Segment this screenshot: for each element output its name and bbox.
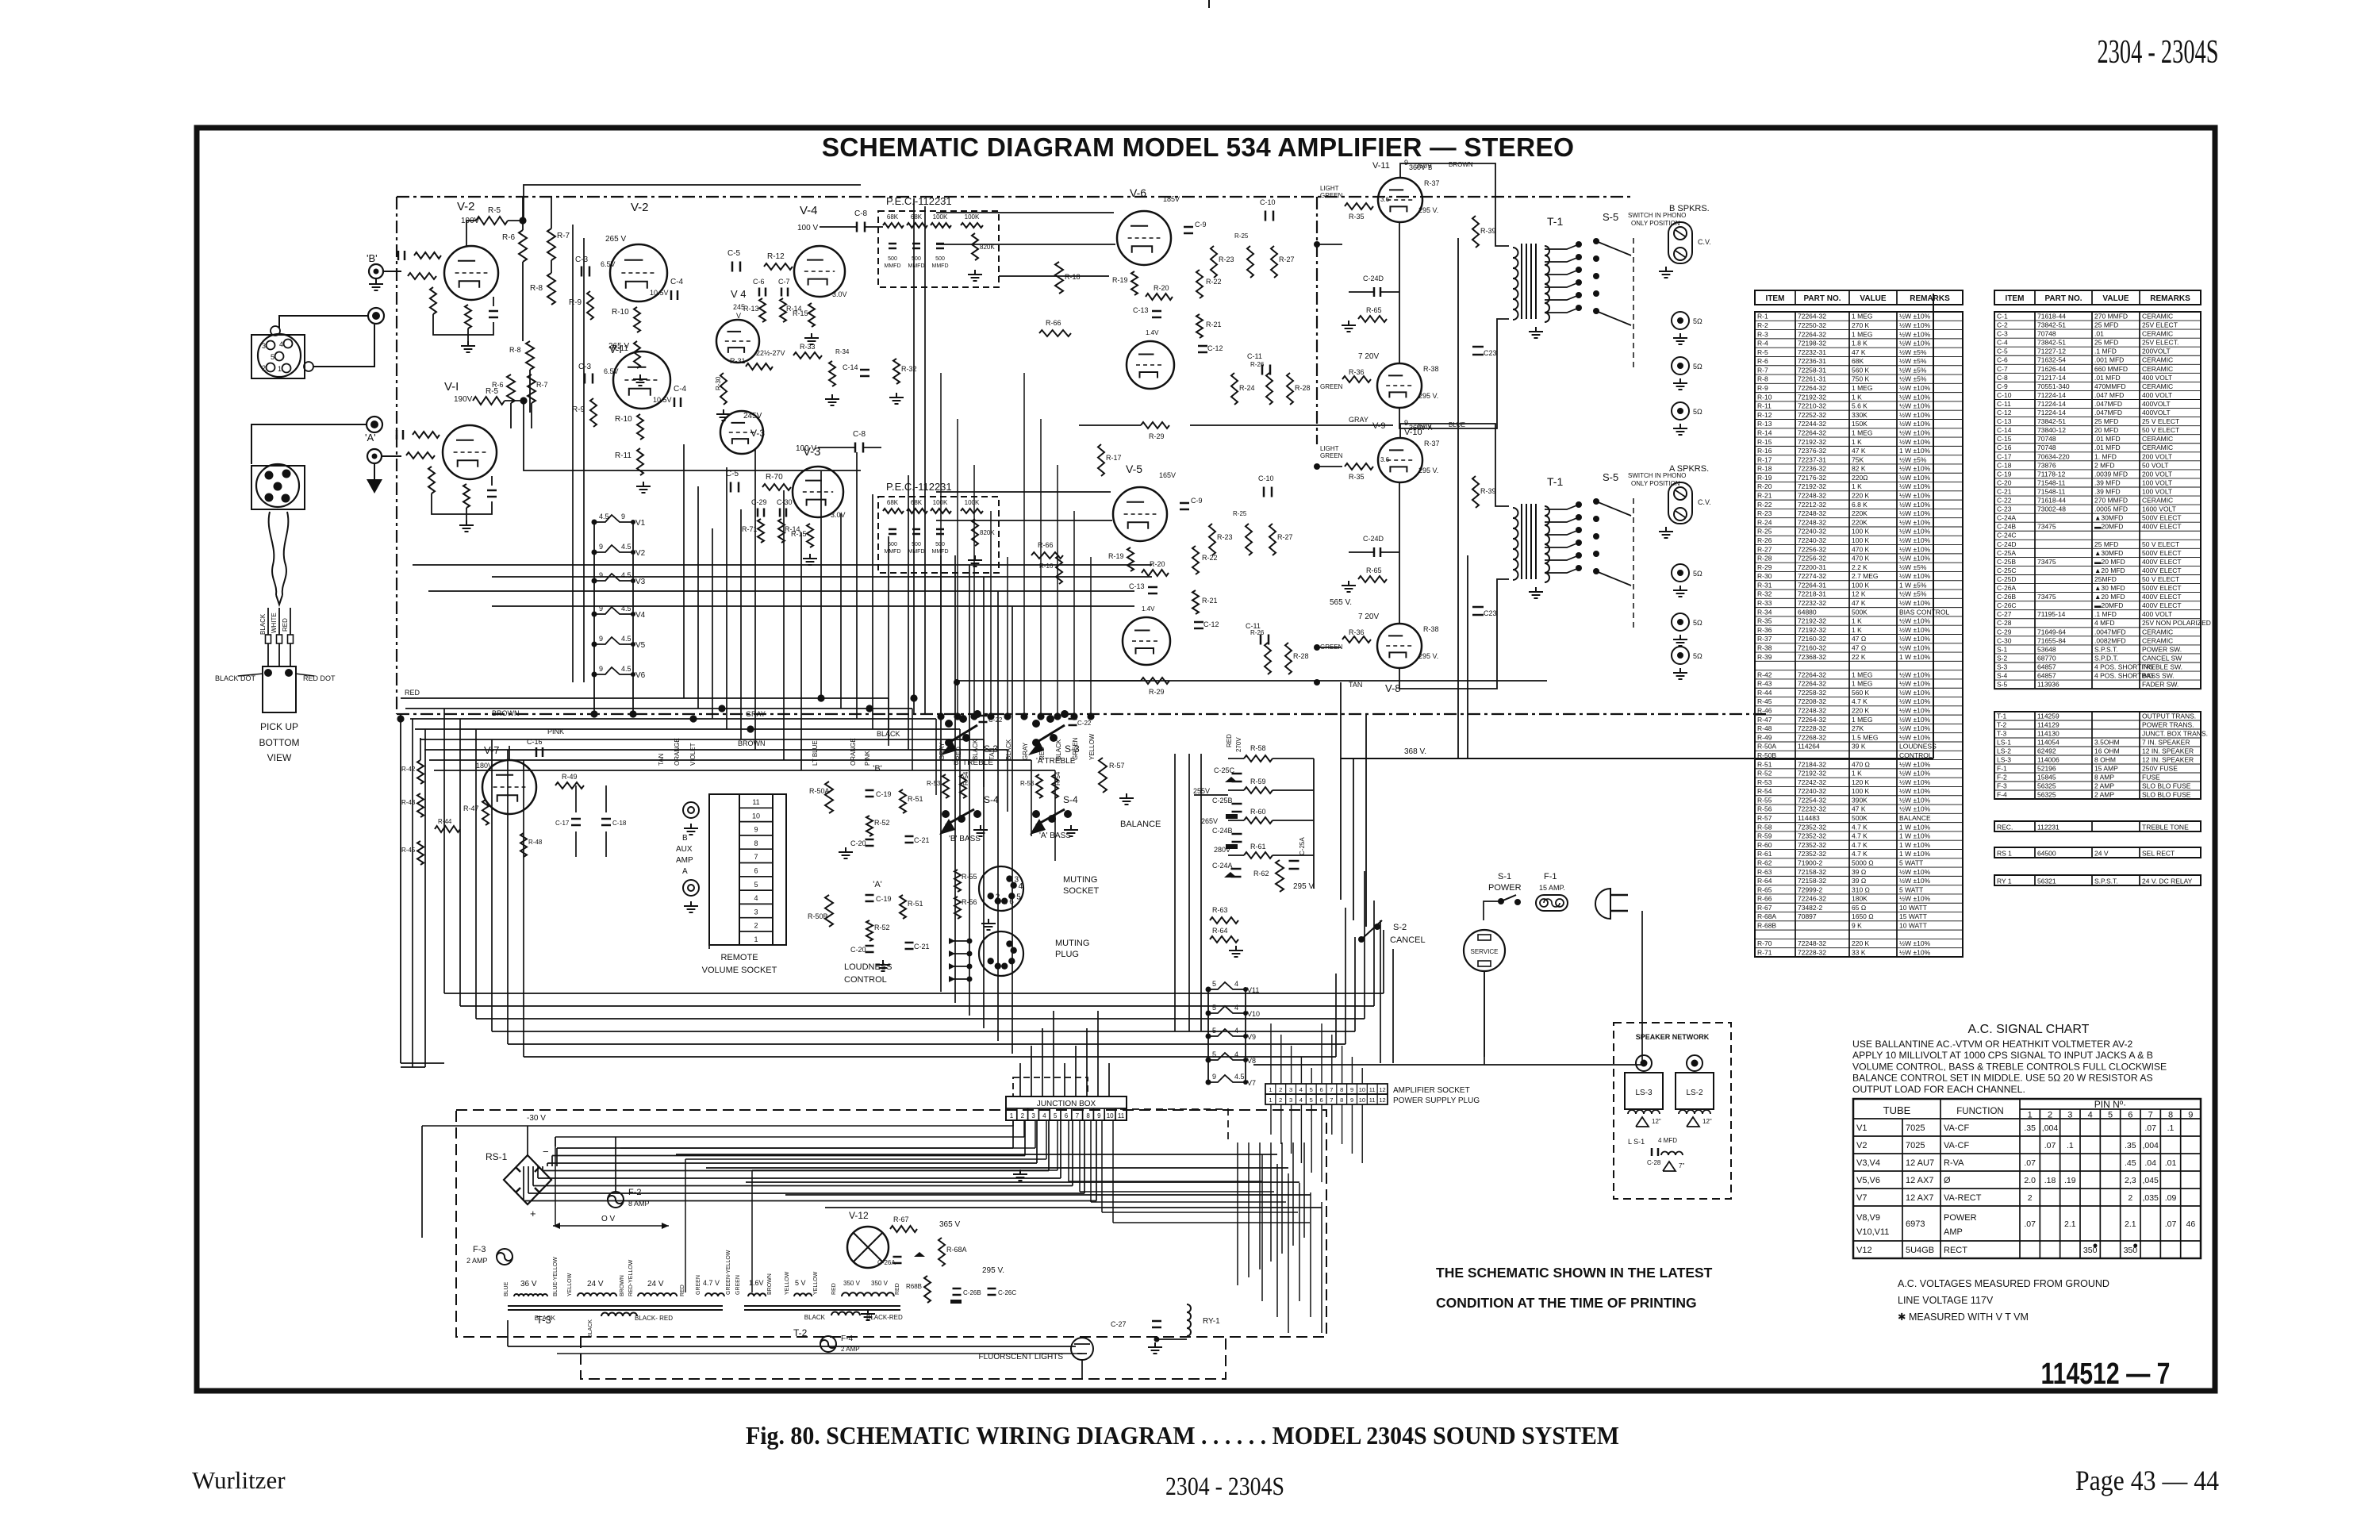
svg-text:V5,V6: V5,V6 [1856, 1176, 1880, 1185]
svg-text:V8,V9: V8,V9 [1856, 1213, 1880, 1223]
grid resistor R-1 V-2 [408, 273, 436, 279]
svg-text:'B': 'B' [367, 252, 378, 264]
svg-text:565 V.: 565 V. [1330, 598, 1352, 607]
svg-text:RED: RED [405, 689, 420, 697]
svg-text:CANCEL SW: CANCEL SW [2142, 654, 2182, 662]
wire plate to T-1 primary [1400, 424, 1509, 506]
svg-text:72232-32: 72232-32 [1798, 805, 1826, 813]
svg-text:165V: 165V [1159, 471, 1176, 479]
junction dots bus [519, 217, 526, 224]
tube V-2 [444, 246, 498, 300]
svg-text:4.7 K: 4.7 K [1852, 697, 1868, 705]
svg-text:T-2: T-2 [1997, 720, 2007, 728]
svg-text:72264-32: 72264-32 [1798, 330, 1826, 338]
screen resistor R-36 [1342, 636, 1371, 643]
svg-text:72240-32: 72240-32 [1798, 536, 1826, 544]
svg-text:56325: 56325 [2037, 790, 2056, 798]
arrow ground at jack A [374, 464, 375, 479]
svg-text:270 MMFD: 270 MMFD [2094, 312, 2128, 320]
svg-text:72200-31: 72200-31 [1798, 563, 1826, 571]
svg-text:C-18: C-18 [1997, 461, 2012, 469]
svg-text:8: 8 [1086, 1112, 1090, 1119]
svg-text:C-12: C-12 [1207, 344, 1223, 352]
svg-text:.01 MFD: .01 MFD [2094, 374, 2121, 382]
svg-text:BLACK: BLACK [535, 1315, 556, 1322]
svg-text:72376-32: 72376-32 [1798, 447, 1826, 455]
svg-text:4.5: 4.5 [1234, 1073, 1245, 1081]
wire 100V feed B [524, 185, 861, 221]
svg-text:47 K: 47 K [1852, 348, 1866, 356]
svg-text:73482-2: 73482-2 [1798, 904, 1822, 912]
svg-text:F-1: F-1 [1997, 764, 2007, 772]
svg-text:AMPLIFIER SOCKET: AMPLIFIER SOCKET [1393, 1086, 1470, 1095]
svg-text:V-11: V-11 [1372, 161, 1390, 171]
lead terminals [266, 635, 271, 643]
svg-text:V-3: V-3 [803, 445, 821, 459]
wire 368V run [1341, 758, 1933, 759]
svg-text:▬20 MFD: ▬20 MFD [2094, 558, 2125, 566]
svg-text:4: 4 [1234, 1027, 1238, 1035]
svg-text:APPLY 10 MILLIVOLT AT 1000 CPS: APPLY 10 MILLIVOLT AT 1000 CPS SIGNAL TO… [1852, 1050, 2153, 1061]
svg-text:72264-32: 72264-32 [1798, 428, 1826, 436]
svg-text:12: 12 [1379, 1086, 1385, 1093]
aux amp jacks [683, 802, 699, 818]
resistor R-3 V-2 [430, 287, 436, 314]
svg-text:SLO BLO FUSE: SLO BLO FUSE [2142, 782, 2191, 789]
svg-text:▲30 MFD: ▲30 MFD [2094, 584, 2125, 592]
svg-text:R-21: R-21 [1202, 597, 1218, 605]
svg-text:LS-2: LS-2 [1997, 747, 2011, 755]
svg-text:1 W ±10%: 1 W ±10% [1899, 841, 1931, 849]
svg-text:R-15: R-15 [793, 309, 808, 317]
parts table RY-1 relay [1994, 875, 2201, 885]
cap C-13 V-6 [1152, 310, 1161, 313]
ground R-65 [1348, 581, 1349, 586]
svg-text:▲20 MFD: ▲20 MFD [2094, 593, 2125, 601]
cap C-23 [1472, 346, 1484, 348]
wires to junction box diagonal bundle [1019, 1063, 1021, 1096]
tube V-6 [1117, 211, 1171, 265]
svg-text:5: 5 [1016, 893, 1021, 901]
svg-text:C-23: C-23 [1997, 505, 2012, 513]
remote volume socket outer box [709, 794, 786, 945]
svg-text:500V ELECT: 500V ELECT [2142, 549, 2182, 557]
svg-text:PART NO.: PART NO. [2044, 294, 2082, 303]
svg-text:5: 5 [271, 353, 274, 361]
tube V-2b [610, 244, 667, 301]
cap C-24A [1231, 868, 1242, 870]
svg-text:'A': 'A' [365, 432, 376, 444]
cap C-5 V-3 [730, 482, 732, 493]
svg-text:39 Ω: 39 Ω [1852, 868, 1866, 876]
svg-text:R-21: R-21 [1206, 321, 1222, 328]
svg-text:R-31: R-31 [1757, 581, 1772, 589]
svg-text:68K: 68K [887, 213, 899, 221]
coupling cap C-3 V-2b [581, 267, 583, 277]
svg-text:4.5: 4.5 [621, 571, 631, 579]
svg-text:R-38: R-38 [1423, 365, 1439, 373]
svg-text:V-6: V-6 [1130, 186, 1146, 199]
svg-text:185V: 185V [1163, 195, 1180, 203]
svg-text:VALUE: VALUE [1860, 294, 1886, 303]
cap C-10 lower [1263, 487, 1265, 497]
resistor R-62 vertical [1276, 860, 1284, 892]
svg-text:1 K: 1 K [1852, 617, 1862, 625]
svg-text:9: 9 [599, 635, 603, 643]
fuse F-4 [820, 1336, 836, 1352]
svg-text:7: 7 [1330, 1086, 1333, 1093]
tube V-1 [443, 425, 497, 479]
resistor R-65 [1358, 316, 1387, 322]
svg-text:C-16: C-16 [527, 738, 543, 746]
svg-text:LT BLUE: LT BLUE [812, 740, 819, 766]
svg-text:RS 1: RS 1 [1997, 849, 2012, 857]
svg-text:C-12: C-12 [1997, 409, 2012, 417]
svg-text:S-1: S-1 [1498, 872, 1511, 881]
svg-text:4.5: 4.5 [621, 635, 631, 643]
svg-text:5: 5 [754, 881, 758, 889]
wire outer loop bottom [401, 1066, 425, 1068]
resistor R-31 [746, 363, 773, 370]
svg-text:295 V.: 295 V. [1418, 467, 1438, 474]
svg-text:F-2: F-2 [1997, 773, 2007, 781]
svg-text:BROWN: BROWN [738, 739, 766, 747]
svg-text:9: 9 [1350, 1086, 1353, 1093]
svg-text:POWER SW.: POWER SW. [2142, 645, 2182, 653]
svg-text:2 MFD: 2 MFD [2094, 461, 2115, 469]
svg-text:72261-31: 72261-31 [1798, 375, 1826, 383]
svg-text:R-6: R-6 [502, 233, 516, 242]
svg-text:S-3: S-3 [1997, 662, 2008, 670]
svg-text:400V ELECT: 400V ELECT [2142, 523, 2182, 531]
svg-text:.047 MFD: .047 MFD [2094, 391, 2124, 399]
svg-text:71900-2: 71900-2 [1798, 858, 1822, 866]
svg-text:72264-31: 72264-31 [1798, 581, 1826, 589]
svg-text:72218-31: 72218-31 [1798, 590, 1826, 598]
muting plug arrows [949, 940, 969, 942]
svg-text:72258-32: 72258-32 [1798, 689, 1826, 697]
svg-text:½W ±10%: ½W ±10% [1899, 518, 1931, 526]
resistor R-17 lower [1209, 745, 1211, 747]
svg-text:1600 VOLT: 1600 VOLT [2142, 505, 2176, 513]
svg-text:120 K: 120 K [1852, 778, 1870, 786]
svg-text:C-5: C-5 [1997, 348, 2008, 355]
svg-text:71227-12: 71227-12 [2037, 348, 2066, 355]
svg-text:9: 9 [1404, 159, 1408, 167]
speaker LS-2 [1687, 1055, 1702, 1071]
svg-text:46: 46 [2186, 1219, 2195, 1229]
svg-text:72250-32: 72250-32 [1798, 321, 1826, 329]
svg-text:R-26: R-26 [1757, 536, 1772, 544]
resistor R-15 V-3 [807, 524, 813, 547]
svg-text:R-36: R-36 [1349, 628, 1365, 636]
svg-text:.07: .07 [2044, 1141, 2056, 1150]
svg-text:,004: ,004 [2042, 1123, 2059, 1133]
svg-text:6.5V: 6.5V [601, 260, 616, 268]
balance pot R-57 [1099, 758, 1107, 793]
svg-text:R-45: R-45 [1757, 697, 1772, 705]
svg-text:V3,V4: V3,V4 [1856, 1158, 1880, 1168]
second triode V-5 [1123, 617, 1170, 665]
cap C-9 V-5 [1180, 502, 1189, 505]
svg-text:470MMFD: 470MMFD [2094, 382, 2126, 390]
svg-text:500V ELECT: 500V ELECT [2142, 584, 2182, 592]
ground V-4 [811, 333, 812, 338]
dashed wire junction pin 11 [1120, 1109, 1228, 1141]
svg-text:72208-32: 72208-32 [1798, 697, 1826, 705]
svg-text:180V: 180V [476, 762, 493, 770]
muting socket [979, 866, 1023, 911]
svg-text:R-47: R-47 [1757, 716, 1772, 724]
svg-text:5U4GB: 5U4GB [1906, 1246, 1934, 1255]
svg-text:½W ±10%: ½W ±10% [1899, 895, 1931, 903]
svg-text:C-8: C-8 [1997, 374, 2008, 382]
svg-text:C-11: C-11 [1997, 400, 2011, 408]
svg-text:R-54: R-54 [1054, 771, 1061, 785]
svg-text:R-44: R-44 [1757, 689, 1772, 697]
svg-text:VIOLET: VIOLET [689, 743, 697, 766]
svg-text:36 V: 36 V [520, 1280, 537, 1288]
svg-text:ONLY POSITION: ONLY POSITION [1631, 220, 1680, 227]
svg-text:7 IN. SPEAKER: 7 IN. SPEAKER [2142, 738, 2190, 746]
svg-text:1: 1 [1010, 1112, 1014, 1119]
svg-text:MUTING: MUTING [1063, 875, 1097, 885]
svg-text:C-5: C-5 [727, 249, 741, 258]
svg-text:8: 8 [1340, 1086, 1343, 1093]
svg-text:½W ±10%: ½W ±10% [1899, 545, 1931, 553]
T-2 core lines [744, 1305, 900, 1307]
wire verticals into power supply [1237, 1143, 1238, 1285]
svg-text:C-4: C-4 [670, 278, 684, 286]
svg-text:½W ±10%: ½W ±10% [1899, 402, 1931, 410]
svg-text:R-62: R-62 [1253, 870, 1269, 878]
svg-text:.047MFD: .047MFD [2094, 400, 2122, 408]
svg-text:A: A [682, 867, 688, 876]
speaker network dashed box [1614, 1023, 1731, 1199]
wire long runs bottom left [401, 1062, 444, 1064]
svg-text:C-25A: C-25A [1299, 837, 1306, 855]
svg-text:C-27: C-27 [1111, 1320, 1127, 1328]
svg-text:C-13: C-13 [1133, 306, 1149, 314]
caps C-6 C-7 V-3 [757, 509, 759, 517]
svg-text:R-60: R-60 [1250, 808, 1266, 816]
svg-text:V3: V3 [635, 578, 646, 586]
svg-text:73475: 73475 [2037, 593, 2056, 601]
resistors R-53 R-54 A [1036, 774, 1042, 798]
svg-text:½W ±10%: ½W ±10% [1899, 617, 1931, 625]
svg-text:C-11: C-11 [1247, 352, 1262, 360]
chassis dash-dot boundary top [397, 196, 1633, 198]
svg-text:RS-1: RS-1 [486, 1151, 508, 1162]
svg-text:½W ±10%: ½W ±10% [1899, 760, 1931, 768]
svg-text:YELLOW: YELLOW [1088, 733, 1096, 760]
svg-text:CERAMIC: CERAMIC [2142, 330, 2173, 338]
svg-text:5Ω: 5Ω [1693, 570, 1702, 578]
svg-text:½W ±10%: ½W ±10% [1899, 724, 1931, 732]
svg-text:Page 43 — 44: Page 43 — 44 [2075, 1465, 2219, 1496]
svg-text:2: 2 [2028, 1193, 2033, 1203]
svg-text:400 VOLT: 400 VOLT [2142, 610, 2172, 618]
svg-text:R-28: R-28 [1757, 555, 1772, 563]
svg-text:73475: 73475 [2037, 523, 2056, 531]
svg-text:.39 MFD: .39 MFD [2094, 487, 2121, 495]
cap C-16 [535, 747, 538, 757]
svg-text:R-7: R-7 [557, 232, 570, 240]
svg-text:820K: 820K [980, 529, 995, 536]
svg-text:24 V. DC RELAY: 24 V. DC RELAY [2142, 877, 2193, 885]
svg-text:R-52: R-52 [1757, 770, 1772, 778]
svg-text:114259: 114259 [2037, 712, 2059, 720]
wire bundle above amplifier socket [1270, 1023, 1272, 1084]
caps C-6 C-7 V-4 [758, 288, 761, 297]
svg-text:.0047MFD: .0047MFD [2094, 628, 2126, 636]
svg-text:8 AMP: 8 AMP [2094, 773, 2114, 781]
svg-text:P.E.C.-112231: P.E.C.-112231 [886, 195, 952, 207]
svg-text:1 W ±10%: 1 W ±10% [1899, 823, 1931, 831]
divider resistor R-8 [547, 273, 555, 305]
svg-text:C-20: C-20 [850, 839, 866, 847]
svg-text:50 V ELECT: 50 V ELECT [2142, 575, 2179, 583]
svg-text:50 V ELECT: 50 V ELECT [2142, 426, 2179, 434]
svg-text:C-10: C-10 [1258, 474, 1274, 482]
svg-text:F-4: F-4 [841, 1335, 853, 1343]
svg-text:73475: 73475 [2037, 558, 2056, 566]
parts table transformers speakers fuses [1994, 712, 2201, 799]
svg-text:560 K: 560 K [1852, 689, 1870, 697]
long mid horizontals [413, 564, 1152, 566]
svg-text:400V ELECT: 400V ELECT [2142, 593, 2182, 601]
svg-text:C-25B: C-25B [1212, 797, 1233, 805]
svg-text:R-57: R-57 [1757, 814, 1772, 822]
svg-text:C-26C: C-26C [1997, 601, 2017, 609]
cap C-11 upper [1261, 365, 1264, 375]
chassis dash-dot boundary left [396, 197, 397, 714]
svg-text:68K: 68K [911, 499, 923, 506]
cap C-22 A [1069, 718, 1077, 720]
svg-text:V-9: V-9 [1372, 421, 1386, 431]
svg-text:500K: 500K [1852, 608, 1868, 616]
svg-text:.07: .07 [2144, 1123, 2156, 1133]
svg-text:R-39: R-39 [1757, 653, 1772, 661]
svg-text:112231: 112231 [2037, 823, 2059, 831]
svg-text:295 V.: 295 V. [1418, 206, 1438, 214]
resistor R-47 [482, 800, 489, 825]
resistor R-32 [893, 359, 900, 384]
svg-text:72236-31: 72236-31 [1798, 357, 1826, 365]
svg-text:5Ω: 5Ω [1693, 317, 1702, 325]
svg-text:9: 9 [599, 571, 603, 579]
module ground [974, 270, 976, 275]
svg-text:71224-14: 71224-14 [2037, 409, 2066, 417]
svg-text:47 Ω: 47 Ω [1852, 643, 1866, 651]
svg-text:V1: V1 [1856, 1123, 1867, 1133]
svg-text:750 K: 750 K [1852, 375, 1870, 383]
junction box ground [1019, 1169, 1021, 1174]
svg-text:RY 1: RY 1 [1997, 877, 2012, 885]
svg-text:R-23: R-23 [1217, 533, 1233, 541]
svg-text:5Ω: 5Ω [1693, 652, 1702, 660]
svg-text:R-10: R-10 [612, 308, 629, 317]
module output resistor 820K [972, 233, 978, 260]
svg-text:½W ±10%: ½W ±10% [1899, 948, 1931, 956]
svg-text:FADER SW.: FADER SW. [2142, 681, 2178, 689]
cap C-26C [988, 1288, 996, 1290]
svg-text:R-35: R-35 [1757, 617, 1772, 625]
svg-text:24 V: 24 V [587, 1280, 604, 1288]
svg-text:RED: RED [831, 1283, 837, 1295]
svg-text:C-22: C-22 [1997, 497, 2012, 505]
svg-text:C-8: C-8 [854, 209, 868, 218]
svg-text:½W ±10%: ½W ±10% [1899, 716, 1931, 724]
svg-text:BLUE-YELLOW: BLUE-YELLOW [553, 1257, 559, 1296]
svg-text:C-19: C-19 [876, 790, 892, 798]
svg-text:S-5: S-5 [1603, 211, 1618, 223]
wires C-24D loop [1349, 291, 1374, 293]
svg-text:C-30: C-30 [1997, 636, 2012, 644]
wire connector to plug A cable [313, 325, 374, 367]
svg-text:15 AMP: 15 AMP [2094, 764, 2118, 772]
svg-text:CERAMIC: CERAMIC [2142, 312, 2173, 320]
resistor R-42 R-43 R-44 R-45 cluster [417, 760, 424, 784]
svg-text:200VOLT: 200VOLT [2142, 348, 2171, 355]
svg-text:.1: .1 [2167, 1123, 2175, 1133]
svg-text:6973: 6973 [1906, 1219, 1925, 1229]
svg-text:R-6: R-6 [492, 381, 504, 389]
wire GRAY run [1190, 424, 1393, 426]
svg-text:100 K: 100 K [1852, 581, 1870, 589]
svg-text:R-48: R-48 [1757, 724, 1772, 732]
cap C-26B [953, 1288, 962, 1290]
svg-text:25MFD: 25MFD [2094, 575, 2117, 583]
svg-text:V-8: V-8 [1385, 682, 1401, 694]
svg-text:½W ±10%: ½W ±10% [1899, 501, 1931, 509]
svg-text:47 K: 47 K [1852, 805, 1866, 813]
svg-text:400VOLT: 400VOLT [2142, 400, 2171, 408]
svg-text:2 AMP: 2 AMP [2094, 782, 2114, 789]
svg-text:100 VOLT: 100 VOLT [2142, 478, 2172, 486]
svg-text:R-54: R-54 [962, 771, 969, 785]
cap C-12 V-5 [1194, 621, 1203, 624]
svg-text:25 MFD: 25 MFD [2094, 339, 2118, 347]
svg-text:20 MFD: 20 MFD [2094, 426, 2118, 434]
svg-text:REC.: REC. [1997, 823, 2013, 831]
svg-text:V2: V2 [1856, 1141, 1867, 1150]
svg-text:16 OHM: 16 OHM [2094, 747, 2120, 755]
svg-text:64500: 64500 [2037, 849, 2056, 857]
svg-text:▲30MFD: ▲30MFD [2094, 514, 2123, 522]
svg-text:.1 MFD: .1 MFD [2094, 348, 2117, 355]
svg-text:1.4V: 1.4V [1142, 605, 1155, 613]
cap C-25C [1232, 773, 1242, 775]
svg-text:AMP: AMP [1944, 1227, 1963, 1237]
switch S-2 CANCEL [1374, 924, 1380, 930]
svg-text:R-46: R-46 [1757, 707, 1772, 715]
parts table REC treble tone [1994, 821, 2201, 831]
svg-text:½W ±10%: ½W ±10% [1899, 939, 1931, 947]
svg-text:25V ELECT: 25V ELECT [2142, 321, 2178, 329]
schematic sheet border [197, 128, 2215, 1391]
svg-text:R-67: R-67 [893, 1215, 909, 1223]
svg-text:ITEM: ITEM [1766, 294, 1785, 303]
svg-text:64857: 64857 [2037, 662, 2056, 670]
svg-text:.04: .04 [2144, 1158, 2156, 1168]
svg-text:72198-32: 72198-32 [1798, 340, 1826, 348]
svg-text:245V: 245V [743, 412, 762, 421]
svg-text:R-9: R-9 [1757, 384, 1768, 392]
svg-text:RED: RED [895, 1283, 900, 1295]
svg-text:114512 — 7: 114512 — 7 [2041, 1358, 2171, 1391]
svg-text:VALUE: VALUE [2102, 294, 2129, 303]
